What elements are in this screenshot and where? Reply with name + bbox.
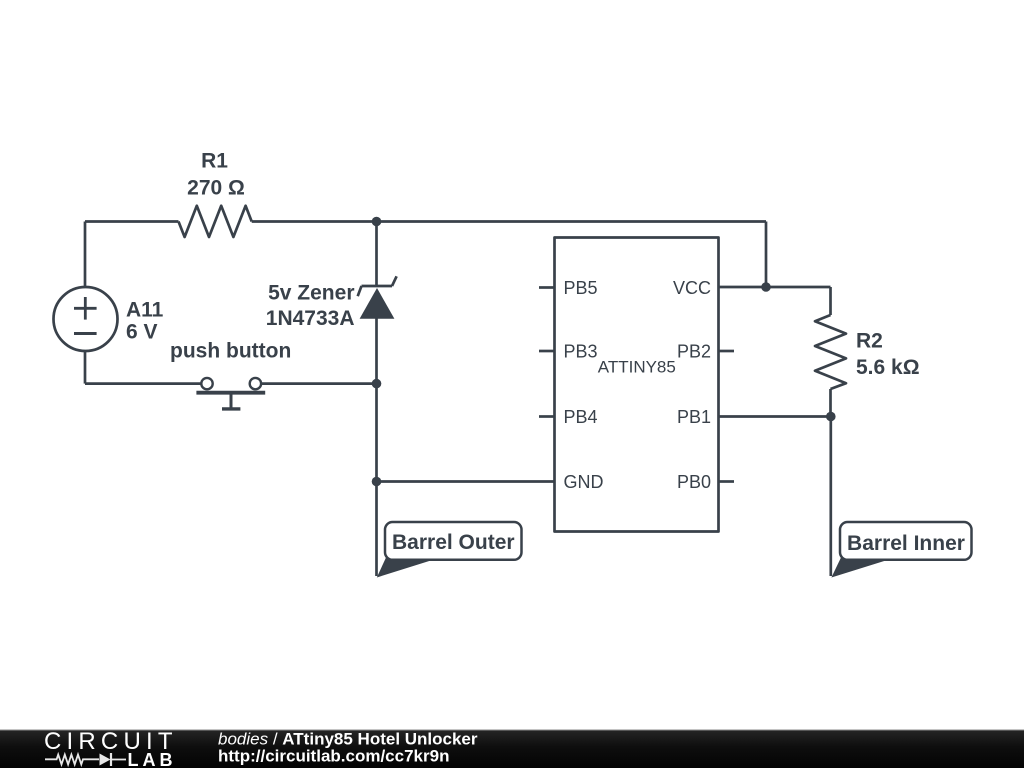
svg-text:R1: R1 <box>201 150 228 173</box>
svg-text:5.6 kΩ: 5.6 kΩ <box>856 356 920 379</box>
svg-text:PB4: PB4 <box>564 407 598 427</box>
svg-text:6 V: 6 V <box>126 320 158 343</box>
svg-text:PB5: PB5 <box>564 278 598 298</box>
svg-text:R2: R2 <box>856 330 883 353</box>
svg-text:A11: A11 <box>126 298 164 321</box>
svg-text:PB0: PB0 <box>677 472 711 492</box>
svg-text:PB1: PB1 <box>677 407 711 427</box>
svg-text:ATTINY85: ATTINY85 <box>598 358 676 377</box>
svg-text:VCC: VCC <box>673 278 711 298</box>
svg-text:Barrel Inner: Barrel Inner <box>847 532 965 555</box>
svg-text:PB2: PB2 <box>677 341 711 361</box>
svg-text:PB3: PB3 <box>564 341 598 361</box>
svg-text:Barrel Outer: Barrel Outer <box>392 531 515 554</box>
svg-text:270 Ω: 270 Ω <box>187 177 245 200</box>
svg-text:http://circuitlab.com/cc7kr9n: http://circuitlab.com/cc7kr9n <box>218 747 449 766</box>
svg-text:5v Zener: 5v Zener <box>268 281 354 304</box>
svg-text:1N4733A: 1N4733A <box>266 307 355 330</box>
svg-text:LAB: LAB <box>128 750 177 768</box>
svg-text:push button: push button <box>170 340 291 363</box>
svg-text:GND: GND <box>564 472 604 492</box>
